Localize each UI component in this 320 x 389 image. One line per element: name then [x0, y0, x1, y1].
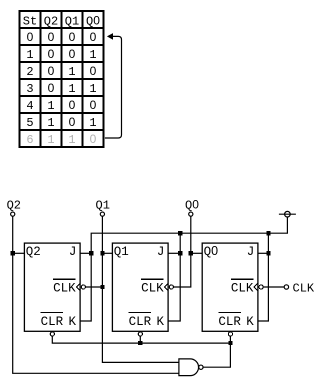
U1 CLK edge wedge: [76, 283, 80, 291]
svg-text:6: 6: [26, 133, 33, 147]
wire Q2 output pin to Q2 net: [13, 252, 25, 254]
svg-text:0: 0: [69, 115, 76, 129]
svg-text:St: St: [23, 15, 37, 29]
U1 CLR bubble: [50, 332, 54, 336]
svg-text:3: 3: [26, 82, 33, 96]
NAND gate G1 body: [179, 359, 199, 376]
svg-text:0: 0: [48, 47, 55, 61]
svg-text:1: 1: [26, 48, 33, 62]
wire U3 J/K tie: [258, 233, 269, 321]
junction Q2 net / Q2 pin: [11, 251, 15, 255]
state table grid: [20, 11, 104, 147]
power high-level terminal (logic 1): [285, 211, 291, 217]
svg-text:1: 1: [89, 82, 96, 96]
svg-text:Q0: Q0: [185, 197, 199, 212]
wire Q1 output pin to Q1 net: [102, 252, 112, 254]
U1 CLR overline: [41, 311, 64, 313]
svg-text:1: 1: [68, 82, 75, 96]
wire U3 J pin to tie: [258, 252, 269, 254]
svg-text:CLK: CLK: [231, 282, 254, 296]
inversion bubbles and clock wedges: [50, 283, 263, 336]
svg-text:Q1: Q1: [96, 198, 110, 212]
svg-text:0: 0: [69, 98, 76, 112]
svg-text:1: 1: [47, 116, 54, 130]
svg-text:Q2: Q2: [26, 245, 41, 259]
svg-text:Q1: Q1: [114, 245, 129, 259]
junction CLR rail / U2 CLR: [138, 341, 142, 345]
svg-text:4: 4: [26, 99, 33, 113]
wire logic-1 rail down and across to U1 J/K tie: [80, 217, 287, 321]
svg-text:0: 0: [48, 30, 55, 44]
node Q2 terminal: [11, 212, 15, 216]
U3 CLK edge wedge: [254, 283, 258, 291]
flip-flop U2 (Q1) box: [112, 243, 168, 331]
svg-text:1: 1: [68, 65, 75, 79]
svg-text:J: J: [157, 245, 165, 259]
U2 CLK overline: [141, 278, 164, 280]
wire U3 CLR pin drop / NAND output riser: [203, 336, 230, 367]
svg-text:0: 0: [69, 47, 76, 61]
wire Q0 output pin to Q0 net: [191, 252, 202, 254]
svg-text:K: K: [246, 315, 254, 329]
svg-text:J: J: [69, 245, 77, 259]
junction Q1 net / U1 CLK: [100, 285, 104, 289]
junction Q1 net / Q1 pin: [100, 251, 104, 255]
U3 CLR bubble: [228, 332, 232, 336]
junction U3 tie / J pin: [266, 251, 270, 255]
svg-text:Q2: Q2: [7, 198, 21, 212]
node Q1 terminal: [100, 212, 104, 216]
svg-text:1: 1: [68, 133, 75, 147]
svg-text:1: 1: [89, 48, 96, 62]
U1 CLK overline: [53, 278, 76, 280]
junction U1 tie / J pin: [89, 251, 93, 255]
wire U1 CLK pin to Q1 net: [86, 286, 103, 288]
svg-text:CLK: CLK: [141, 282, 164, 296]
junction CLR rail / NAND output: [228, 341, 232, 345]
U2 CLR bubble: [138, 332, 142, 336]
NAND gate G1 output bubble: [199, 365, 203, 369]
svg-text:0: 0: [48, 81, 55, 95]
svg-text:0: 0: [90, 132, 97, 146]
svg-text:K: K: [69, 315, 77, 329]
node Q0 terminal: [189, 212, 193, 216]
svg-text:Q1: Q1: [65, 15, 79, 29]
wire U1 J pin to tie: [80, 252, 91, 254]
svg-text:CLR: CLR: [218, 315, 241, 329]
svg-text:1: 1: [89, 116, 96, 130]
U3 CLK overline: [231, 278, 254, 280]
wire Q0 net: terminal down to U2 CLK pin: [173, 216, 190, 287]
junction U2 tie / J pin: [178, 251, 182, 255]
U3 CLR overline: [218, 311, 241, 313]
svg-text:Q0: Q0: [86, 14, 100, 29]
svg-text:CLR: CLR: [41, 315, 64, 329]
U2 CLK edge wedge: [164, 283, 168, 291]
flip-flop U3 (Q0) box: [202, 243, 258, 331]
junction dots: [11, 231, 271, 345]
U3 CLK bubble: [259, 285, 263, 289]
U2 CLR overline: [129, 311, 152, 313]
wire U3 CLK pin to CLK terminal: [263, 286, 284, 288]
svg-text:0: 0: [69, 30, 76, 44]
svg-text:Q0: Q0: [204, 244, 219, 259]
junction Q0 net / Q0 pin: [189, 251, 193, 255]
svg-text:J: J: [247, 245, 255, 259]
svg-text:0: 0: [48, 64, 55, 78]
feedback arrow from row 6 back to row 0: [105, 33, 122, 138]
svg-text:K: K: [157, 315, 165, 329]
svg-text:CLK: CLK: [293, 281, 315, 295]
U1 CLK bubble: [81, 285, 85, 289]
svg-text:0: 0: [90, 98, 97, 112]
svg-text:5: 5: [26, 116, 33, 130]
flip-flop U1 (Q2) box: [24, 243, 80, 331]
wire U2 J pin to tie: [168, 252, 180, 254]
svg-text:0: 0: [90, 64, 97, 78]
wire Q1 net: terminal down between U1/U2 to NAND input A: [102, 216, 178, 362]
svg-text:2: 2: [26, 65, 33, 79]
junction rail / U2 tie: [178, 231, 182, 235]
svg-text:1: 1: [47, 99, 54, 113]
svg-text:1: 1: [47, 133, 54, 147]
node CLK input terminal: [284, 285, 288, 289]
svg-text:CLR: CLR: [129, 315, 152, 329]
wire Q2 net: terminal down left side to NAND input B: [13, 216, 179, 373]
svg-text:0: 0: [27, 30, 34, 44]
wire CLR rail under flip-flops: [52, 336, 230, 343]
junction rail / U3 tie: [266, 231, 270, 235]
U2 CLK bubble: [169, 285, 173, 289]
wire U2 J/K tie: [168, 233, 180, 321]
svg-text:0: 0: [90, 30, 97, 44]
svg-text:CLK: CLK: [53, 282, 76, 296]
svg-text:Q2: Q2: [44, 15, 58, 29]
wire U2 CLR pin drop to CLR rail: [139, 336, 141, 343]
